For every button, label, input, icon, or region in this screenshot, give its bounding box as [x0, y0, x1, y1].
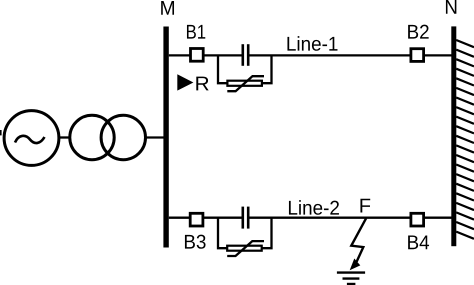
MOV2 varistor box: [227, 246, 262, 251]
ground symbol middle line: [343, 277, 360, 279]
capacitor C1 right plate: [247, 44, 250, 66]
wire bus M to breaker B1: [169, 54, 191, 56]
wire stub left of source (clipped at edge): [0, 130, 2, 135]
bus M bar: [163, 27, 168, 248]
label F (fault): [360, 199, 370, 213]
transformer T1 secondary winding: [101, 115, 145, 159]
capacitor C2 left plate: [242, 207, 245, 229]
wire MOV1 bypass right riser: [262, 55, 272, 83]
bus label M: [161, 1, 174, 15]
label Line-1: [287, 36, 337, 51]
wire bus M to breaker B3: [169, 217, 191, 219]
wire MOV2 bypass right riser: [262, 218, 272, 249]
bus label N: [446, 0, 456, 14]
label B3: [185, 235, 206, 249]
capacitor C2 right plate: [247, 207, 250, 229]
varistor MOV1 diagonal: [227, 76, 264, 91]
breaker B4 square: [411, 213, 424, 226]
label R (relay): [196, 77, 208, 91]
wire B4 to bus N: [424, 217, 453, 219]
wire MOV2 bypass left drop: [218, 218, 227, 249]
sine symbol in source: [15, 136, 45, 143]
capacitor C1 left plate: [242, 44, 245, 66]
breaker B2 square: [411, 49, 424, 62]
wire B3 to series capacitor C2: [203, 217, 242, 219]
varistor MOV2 diagonal: [227, 241, 264, 256]
wire B1 to series capacitor C1: [203, 54, 241, 56]
wire MOV1 bypass left drop: [218, 55, 227, 83]
ground symbol top line: [337, 271, 365, 273]
label B4: [408, 235, 429, 249]
relay R symbol (arrow): [177, 74, 193, 90]
breaker B1 square: [191, 49, 204, 62]
transformer T1 primary winding: [70, 115, 114, 159]
breaker B3 square: [190, 213, 203, 226]
label B2: [408, 25, 429, 39]
fault arrowhead: [350, 259, 361, 271]
wire C2 to breaker B4: [249, 217, 410, 219]
ground symbol bottom line: [347, 283, 356, 285]
wire transformer to bus M: [145, 136, 165, 138]
wire source to transformer: [58, 136, 71, 138]
source G (AC generator): [4, 111, 59, 166]
MOV1 varistor box: [227, 81, 262, 86]
wire B2 to bus N: [424, 54, 453, 56]
fault lightning bolt at F: [351, 218, 366, 261]
bus N bar: [451, 26, 456, 246]
label B1: [187, 25, 205, 39]
label Line-2: [289, 200, 339, 215]
wire C1 to breaker B2: [249, 54, 411, 56]
bus N hatching: [456, 40, 474, 239]
